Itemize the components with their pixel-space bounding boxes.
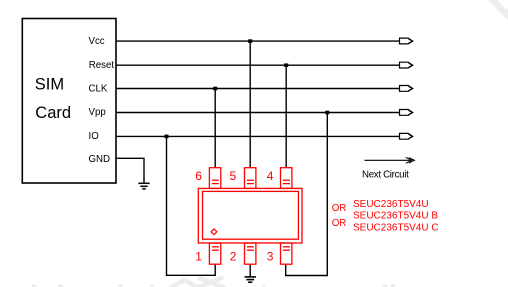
SIM card label	[35, 76, 71, 123]
svg-text:SEUC236T5V4U B: SEUC236T5V4U B	[353, 211, 438, 222]
wire GND to ground	[116, 158, 144, 183]
IC pin 5	[245, 168, 256, 189]
connector flag Vcc	[400, 38, 413, 44]
watermark X top-right	[488, 0, 508, 21]
connector flag Vpp	[400, 110, 413, 116]
op-amp/ESD IC U1 body	[198, 188, 302, 243]
svg-text:SEUC236T5V4U: SEUC236T5V4U	[353, 199, 429, 210]
watermark X bottom-left	[169, 278, 225, 287]
svg-text:SEUC236T5V4U C: SEUC236T5V4U C	[353, 222, 439, 233]
junction Vpp	[325, 111, 329, 115]
pin-1 marker diamond	[211, 229, 217, 235]
svg-text:IO: IO	[89, 131, 100, 142]
svg-text:GND: GND	[89, 154, 111, 165]
SIM card box	[22, 19, 116, 184]
IC pin 2	[245, 243, 256, 264]
wire Vcc	[116, 40, 400, 42]
svg-text:5: 5	[230, 169, 237, 183]
connector flag Reset	[400, 62, 413, 68]
junction Vcc	[248, 39, 252, 43]
IC pin 6	[209, 168, 220, 189]
wire riser pin3 to Vpp	[286, 113, 328, 276]
wire pin2 to ground	[249, 264, 251, 276]
IC pin 3	[281, 243, 292, 264]
svg-text:2: 2	[230, 250, 237, 264]
svg-text:SIM: SIM	[35, 76, 64, 94]
svg-text:Vcc: Vcc	[89, 36, 105, 47]
next circuit arrow	[365, 157, 415, 163]
IC pin 1	[209, 243, 220, 264]
svg-text:3: 3	[267, 250, 274, 264]
wire riser pin6 to CLK	[214, 89, 216, 168]
svg-text:6: 6	[195, 169, 202, 183]
svg-text:Next Circuit: Next Circuit	[362, 169, 409, 180]
svg-text:Vpp: Vpp	[89, 107, 106, 118]
wire pin1 to IO	[167, 136, 216, 275]
wire Reset	[116, 64, 400, 66]
svg-text:4: 4	[267, 169, 274, 183]
svg-text:Card: Card	[35, 104, 71, 122]
svg-text:1: 1	[195, 250, 202, 264]
ground symbol bottom	[245, 277, 256, 282]
svg-text:CLK: CLK	[89, 83, 108, 94]
junction Reset	[284, 63, 288, 67]
wire CLK	[116, 88, 400, 90]
wire Vpp	[116, 112, 400, 114]
ground symbol left	[138, 183, 149, 189]
svg-text:Reset: Reset	[89, 60, 115, 71]
watermark specks bottom edge	[32, 285, 395, 287]
svg-text:OR: OR	[332, 218, 346, 229]
svg-text:OR: OR	[332, 203, 346, 214]
wire riser pin5 to Vcc	[249, 41, 251, 168]
junction CLK	[213, 87, 217, 91]
connector flag IO	[400, 133, 413, 139]
wire IO	[116, 135, 400, 137]
connector flag CLK	[400, 86, 413, 92]
wire riser pin4 to Reset	[285, 65, 287, 168]
junction IO	[165, 135, 169, 139]
IC pin 4	[281, 168, 292, 189]
